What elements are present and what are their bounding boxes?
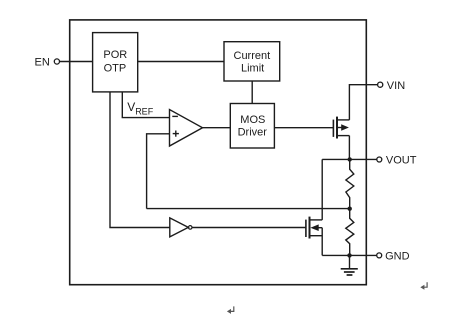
wire VOUT node to NMOS drain — [321, 159, 323, 220]
svg-text:V: V — [127, 100, 135, 114]
transistor Q1 PMOS source stub — [337, 135, 349, 137]
wire NMOS source to GND line — [321, 228, 323, 256]
wire POR to inverter input — [110, 92, 170, 228]
svg-text:Current: Current — [234, 50, 271, 62]
transistor Q2 NMOS body stub — [318, 227, 322, 229]
transistor Q1 PMOS drain stub — [337, 119, 349, 121]
wire to ground symbol — [349, 255, 351, 268]
op-amp U1 error amplifier — [170, 110, 203, 147]
svg-text:GND: GND — [385, 251, 410, 263]
wire Current Limit to MOS Driver — [251, 81, 253, 104]
op-amp U1 minus sign — [172, 116, 178, 117]
terminal EN pin circle — [54, 59, 59, 64]
inverter U2 triangle — [170, 218, 189, 237]
wire op-amp output to MOS Driver — [203, 127, 231, 129]
return mark 2 — [423, 282, 427, 287]
terminal VIN pin circle — [378, 82, 383, 87]
svg-text:POR: POR — [103, 49, 127, 61]
resistor R1 upper feedback — [346, 159, 354, 208]
transistor Q1 PMOS gate bar — [332, 120, 334, 137]
transistor Q2 NMOS gate bar — [305, 220, 307, 237]
wire POR to Current Limit — [138, 61, 224, 63]
transistor Q2 NMOS source stub — [310, 235, 323, 237]
wire feedback line — [147, 208, 350, 210]
wire VIN to PMOS — [349, 85, 377, 120]
op-amp U1 plus sign — [173, 133, 179, 134]
block Current Limit — [224, 42, 280, 81]
junction node GND — [347, 253, 351, 257]
block POR/OTP — [93, 33, 138, 92]
block MOS Driver — [230, 104, 274, 149]
transistor Q1 PMOS body arrow — [341, 124, 349, 130]
transistor Q2 NMOS body arrow — [310, 224, 318, 231]
svg-text:EN: EN — [35, 56, 50, 68]
wire PMOS to VOUT node — [348, 136, 350, 160]
svg-text:VOUT: VOUT — [386, 155, 417, 167]
wire VOUT line — [322, 158, 377, 160]
wire VREF from POR to error amp minus input — [122, 92, 169, 118]
transistor Q2 NMOS channel bar — [309, 217, 311, 239]
transistor Q1 PMOS channel bar — [336, 117, 338, 139]
svg-text:VIN: VIN — [387, 80, 405, 92]
svg-text:Driver: Driver — [238, 126, 268, 138]
wire GND line — [322, 254, 377, 256]
terminal VOUT pin circle — [377, 157, 382, 162]
terminal GND pin circle — [377, 253, 382, 258]
wire error amp plus input to feedback node — [147, 134, 170, 209]
svg-text:REF: REF — [135, 107, 154, 117]
outer IC boundary box — [70, 20, 367, 285]
junction node VOUT — [348, 157, 352, 161]
ground symbol — [341, 269, 358, 275]
resistor R2 lower feedback — [346, 209, 354, 256]
wire MOS Driver to PMOS gate — [274, 127, 333, 129]
inverter U2 bubble — [188, 226, 192, 230]
wire inverter output to NMOS gate — [192, 227, 306, 229]
wire EN input — [60, 61, 93, 63]
svg-text:OTP: OTP — [104, 63, 127, 75]
transistor Q1 PMOS body stub — [337, 127, 342, 129]
return mark 1 — [230, 306, 234, 311]
svg-text:Limit: Limit — [241, 63, 264, 75]
junction node FB — [348, 207, 352, 211]
transistor Q2 NMOS drain stub — [310, 219, 323, 221]
svg-text:MOS: MOS — [240, 114, 265, 126]
